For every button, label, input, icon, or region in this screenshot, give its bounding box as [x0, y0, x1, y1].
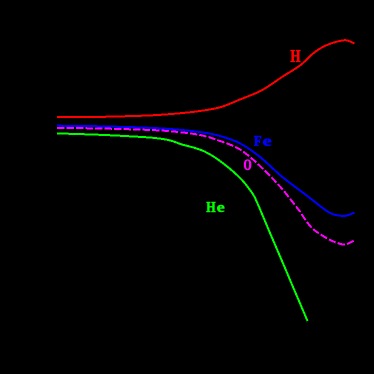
curve O (magenta dashed) — [57, 128, 355, 245]
label Fe — [254, 136, 261, 146]
label O — [244, 160, 251, 170]
curve Fe (blue) — [57, 126, 355, 216]
curve He (green) — [57, 133, 308, 321]
label He — [207, 202, 216, 212]
label H — [291, 50, 301, 62]
curve H (red) — [57, 40, 355, 117]
